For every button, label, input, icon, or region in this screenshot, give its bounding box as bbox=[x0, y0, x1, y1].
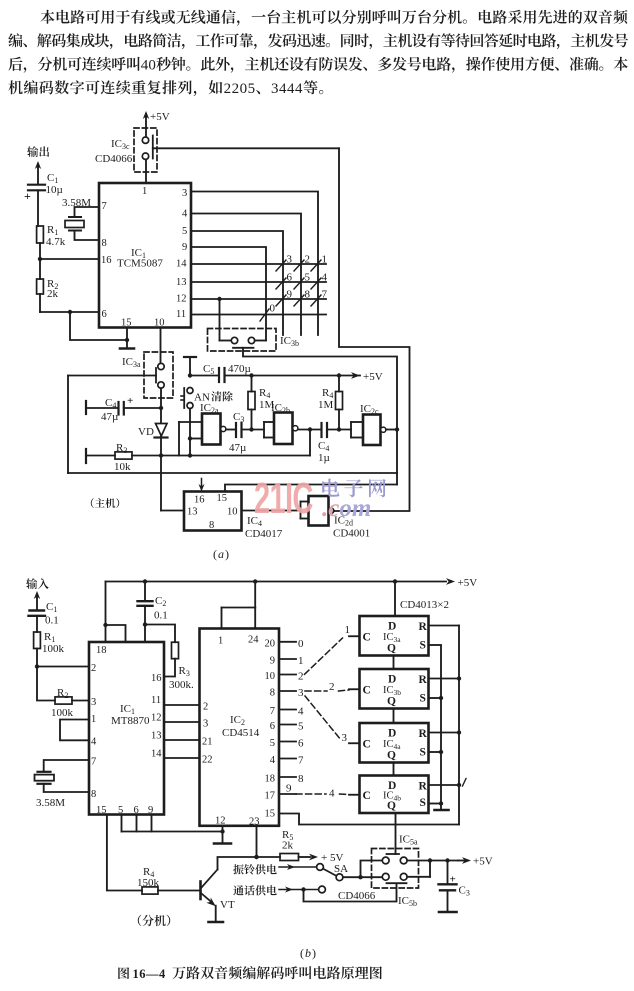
wire talk loop to IC5b bbox=[304, 884, 397, 902]
key 0 bbox=[260, 309, 269, 321]
wire C2 down to IC + R3 branch bbox=[144, 606, 146, 642]
svg-text:0: 0 bbox=[240, 81, 248, 97]
wire pin 7 to crystal bbox=[44, 760, 89, 772]
svg-text:2: 2 bbox=[232, 81, 240, 97]
svg-text:100k: 100k bbox=[42, 643, 65, 655]
svg-text:VD: VD bbox=[138, 426, 154, 438]
svg-text:300k.: 300k. bbox=[169, 679, 194, 691]
wire +5V rail of oscillator bbox=[68, 375, 156, 377]
svg-text:24: 24 bbox=[248, 635, 259, 646]
key 1 bbox=[311, 260, 321, 271]
svg-text:C: C bbox=[363, 684, 371, 696]
analog switch IC3c (CD4066) bbox=[134, 128, 157, 172]
svg-text:b: b bbox=[305, 946, 311, 960]
wire row pin14 bbox=[191, 263, 326, 265]
svg-text:18: 18 bbox=[96, 645, 107, 656]
svg-text:4: 4 bbox=[322, 272, 328, 284]
resistor R1 4.7k bbox=[37, 226, 44, 243]
svg-text:10k: 10k bbox=[114, 461, 131, 473]
analog switch block CD4066 (b) bbox=[372, 849, 419, 889]
inverter IC2b bbox=[264, 421, 274, 423]
svg-text:0: 0 bbox=[148, 58, 156, 74]
svg-text:1µ: 1µ bbox=[318, 452, 330, 464]
flip-flop IC3b (CD4013) bbox=[360, 669, 429, 709]
dashed link output3 to FF3 bbox=[305, 696, 341, 740]
wire +5V rail (b) bbox=[106, 581, 447, 583]
resistor R3 10k bbox=[85, 449, 87, 463]
power +5V (after R5) bbox=[299, 856, 311, 858]
svg-text:9: 9 bbox=[286, 783, 292, 795]
svg-text:5: 5 bbox=[270, 738, 275, 749]
svg-text:8: 8 bbox=[305, 289, 311, 301]
svg-text:5: 5 bbox=[298, 721, 304, 733]
svg-text:2k: 2k bbox=[47, 288, 59, 300]
svg-text:10: 10 bbox=[227, 507, 238, 518]
label 通话供电 bbox=[233, 885, 276, 895]
key 7 bbox=[311, 295, 321, 306]
node pin16 junction bbox=[38, 257, 42, 261]
capacitor C3 47u bbox=[226, 429, 236, 431]
pin 2 clock stub bbox=[349, 688, 360, 690]
svg-text:8: 8 bbox=[209, 520, 214, 531]
svg-text:1: 1 bbox=[298, 655, 304, 667]
svg-text:20: 20 bbox=[265, 638, 276, 649]
svg-text:R: R bbox=[419, 728, 428, 740]
svg-text:4: 4 bbox=[182, 209, 188, 220]
wire IC2b out bbox=[298, 429, 322, 431]
wire row pin13 bbox=[191, 281, 326, 283]
wire R2 to pin 6 bbox=[39, 294, 41, 312]
capacitor C4 1u bbox=[320, 423, 322, 437]
wire CD4514 pin12 bbox=[222, 826, 224, 843]
svg-text:1: 1 bbox=[142, 186, 147, 197]
svg-text:15: 15 bbox=[217, 493, 228, 504]
wire R1 to R2 bbox=[39, 243, 41, 279]
wire rail down to pin18 jog bbox=[105, 582, 107, 626]
svg-text:0.1: 0.1 bbox=[45, 615, 59, 627]
node pin15 riser bbox=[125, 338, 129, 342]
svg-text:100k: 100k bbox=[51, 707, 74, 719]
wire pins 5,6,9 to ground bus bbox=[121, 815, 123, 832]
wire pin14 to pin22 bbox=[164, 757, 200, 759]
wire crystal to pin 8 bbox=[44, 784, 89, 792]
key 8 bbox=[294, 295, 304, 306]
wire C3 to ground bbox=[447, 890, 449, 911]
svg-text:8: 8 bbox=[102, 238, 107, 249]
dashed link output3 to FF2 bbox=[305, 690, 327, 692]
svg-text:CD4066: CD4066 bbox=[338, 890, 376, 902]
svg-text:4.7k: 4.7k bbox=[46, 236, 66, 248]
wire pin10 to IC3a bbox=[160, 328, 162, 364]
enclosure (main unit) left/bottom bbox=[67, 376, 69, 474]
svg-text:1: 1 bbox=[345, 624, 351, 636]
dashed link output2 to FF1 bbox=[305, 638, 343, 674]
svg-text:Q: Q bbox=[387, 643, 396, 655]
wire pin12 to pin3 bbox=[164, 721, 200, 723]
svg-text:): ) bbox=[225, 547, 229, 561]
pin 1 clock stub bbox=[349, 635, 360, 637]
svg-text:SA: SA bbox=[334, 863, 348, 875]
svg-text:6: 6 bbox=[287, 272, 293, 284]
svg-text:13: 13 bbox=[187, 507, 198, 518]
wire R3 to pin 16 bbox=[164, 659, 175, 677]
wire pins1/4 bracket bbox=[60, 720, 89, 741]
svg-text:10: 10 bbox=[265, 671, 276, 682]
svg-text:2: 2 bbox=[329, 681, 335, 693]
pin 3 clock stub bbox=[349, 742, 360, 744]
wire pin 15 bbox=[225, 485, 397, 492]
wire Q to next D bbox=[393, 656, 395, 670]
svg-text:14: 14 bbox=[151, 749, 162, 760]
svg-text:21IC: 21IC bbox=[254, 473, 313, 523]
svg-text:10µ: 10µ bbox=[46, 184, 63, 196]
wire pin3 column 1 bbox=[191, 192, 318, 336]
svg-text:2: 2 bbox=[91, 663, 96, 674]
svg-text:VT: VT bbox=[220, 899, 235, 911]
key 4 bbox=[311, 278, 321, 289]
svg-text:D: D bbox=[388, 674, 396, 686]
flip-flop IC4a (CD4013) bbox=[360, 723, 429, 763]
node row12 to IC3b bbox=[217, 297, 221, 301]
tick on R line bbox=[463, 779, 467, 787]
capacitor C1 0.1 bbox=[30, 609, 45, 611]
label 振铃供电 bbox=[233, 864, 276, 874]
wire D of FF1 from rail bbox=[394, 582, 396, 617]
wire pin 8 bbox=[75, 231, 100, 241]
svg-text:S: S bbox=[420, 797, 426, 809]
svg-text:13: 13 bbox=[176, 277, 187, 288]
svg-text:8: 8 bbox=[270, 688, 275, 699]
svg-text:0: 0 bbox=[298, 638, 304, 650]
wire R pin bbox=[429, 732, 460, 734]
terminal bar (above AN) bbox=[184, 356, 196, 358]
svg-text:4: 4 bbox=[329, 788, 335, 800]
svg-text:3: 3 bbox=[182, 188, 187, 199]
wire emitter to ground bbox=[215, 906, 217, 922]
resistor R3 300k bbox=[172, 642, 179, 659]
svg-text:1M: 1M bbox=[318, 399, 334, 411]
svg-text:12: 12 bbox=[176, 294, 187, 305]
wire IC2c out to node bbox=[386, 429, 397, 431]
wire IC3a down chain bbox=[160, 388, 162, 510]
decoder IC1 MT8870 bbox=[89, 642, 164, 815]
ground (C3) bbox=[439, 911, 457, 914]
svg-text:3: 3 bbox=[287, 254, 293, 266]
ground (VT emitter) bbox=[209, 921, 224, 924]
wire pin15 (b) to R line bbox=[279, 814, 459, 825]
diode VD bbox=[156, 424, 168, 437]
svg-text:11: 11 bbox=[151, 695, 161, 706]
switch IC5a bbox=[387, 853, 400, 855]
wire IC3c to pin 1 bbox=[145, 160, 147, 184]
svg-text:5: 5 bbox=[182, 226, 187, 237]
wire pin4 column 2 bbox=[191, 214, 301, 336]
wire riser R3 node to IC2a input bbox=[178, 422, 180, 456]
svg-text:16: 16 bbox=[151, 673, 162, 684]
svg-text:+5V: +5V bbox=[150, 111, 170, 123]
svg-text:R: R bbox=[419, 674, 428, 686]
wire pin13 to pin21 bbox=[164, 739, 200, 741]
svg-text:TCM5087: TCM5087 bbox=[117, 258, 163, 270]
ground (below pin15) bbox=[120, 347, 134, 350]
capacitor C4 47u bbox=[85, 401, 87, 414]
svg-text:15: 15 bbox=[265, 809, 276, 820]
svg-text:7: 7 bbox=[102, 201, 107, 212]
svg-text:1: 1 bbox=[218, 636, 223, 647]
svg-text:2k: 2k bbox=[282, 840, 294, 852]
wire pin 15 down bbox=[126, 328, 128, 348]
svg-text:16—4: 16—4 bbox=[133, 967, 167, 981]
svg-text:17: 17 bbox=[265, 791, 276, 802]
push button AN (clear) bbox=[187, 388, 193, 394]
resistor R4 1M (first) bbox=[251, 376, 253, 392]
ground (S line) bbox=[435, 809, 449, 812]
svg-text:3: 3 bbox=[342, 732, 348, 744]
resistor R5 2k bbox=[280, 854, 299, 861]
wire input to C1b bbox=[36, 595, 38, 610]
svg-text:+: + bbox=[24, 189, 31, 203]
power +5V (top of a) bbox=[143, 111, 149, 119]
wire pin 16 bbox=[40, 258, 99, 260]
svg-text:C: C bbox=[363, 738, 371, 750]
dashed link output9 to FF4 bbox=[296, 793, 326, 795]
svg-text:16: 16 bbox=[101, 255, 112, 266]
wire AN to IC2a input bbox=[189, 409, 191, 439]
wire pin5 column 3 bbox=[191, 231, 283, 335]
wire IC3b output to node bbox=[243, 348, 397, 485]
svg-text:CD4013×2: CD4013×2 bbox=[400, 599, 449, 611]
svg-text:9: 9 bbox=[287, 289, 293, 301]
svg-text:(: ( bbox=[213, 547, 217, 561]
svg-text:R: R bbox=[419, 781, 428, 793]
inverter IC2c bbox=[351, 421, 363, 423]
wire R common bbox=[458, 626, 460, 825]
watermark 电子网 bbox=[322, 479, 386, 498]
key 9 bbox=[276, 295, 286, 306]
resistor R4 150k bbox=[142, 887, 158, 894]
power +5V (output) bbox=[462, 857, 471, 864]
analog switch IC3b bbox=[208, 329, 277, 352]
flip-flop IC3a (CD4013) bbox=[360, 616, 429, 656]
power +5V (b top) bbox=[446, 578, 455, 585]
wire IC2d out bbox=[333, 510, 335, 512]
capacitor C5 470u bbox=[218, 368, 220, 382]
svg-text:12: 12 bbox=[151, 713, 162, 724]
svg-text:+5V: +5V bbox=[458, 577, 478, 589]
svg-text:7: 7 bbox=[91, 757, 96, 768]
wire pin 10 to IC2d bbox=[242, 510, 301, 512]
svg-text:3.58M: 3.58M bbox=[62, 197, 91, 209]
wire pin9 column 0 bbox=[191, 247, 266, 341]
resistor R1 100k bbox=[34, 632, 41, 649]
svg-text:8: 8 bbox=[91, 789, 96, 800]
svg-text:CD4066: CD4066 bbox=[95, 153, 133, 165]
figure caption bbox=[118, 967, 129, 979]
resistor R2 2k bbox=[37, 279, 44, 294]
clock arrow into pin 16 bbox=[199, 484, 205, 492]
crystal 3.58M (b) bbox=[38, 771, 51, 773]
svg-text:+: + bbox=[127, 395, 133, 407]
svg-text:Q: Q bbox=[387, 696, 396, 708]
svg-text:0: 0 bbox=[270, 303, 276, 315]
svg-text:47µ: 47µ bbox=[229, 442, 246, 454]
svg-text:4: 4 bbox=[287, 81, 295, 97]
svg-text:15: 15 bbox=[121, 318, 132, 329]
analog switch IC3a bbox=[144, 352, 173, 398]
svg-text:9: 9 bbox=[270, 656, 275, 667]
svg-text:1: 1 bbox=[322, 254, 328, 266]
svg-text:R: R bbox=[419, 621, 428, 633]
svg-text:CD4017: CD4017 bbox=[245, 528, 283, 540]
wire FF4 Q down to IC5a bbox=[395, 813, 397, 854]
svg-text:6: 6 bbox=[102, 309, 107, 320]
wire S pin bbox=[429, 803, 443, 805]
svg-text:2: 2 bbox=[203, 702, 208, 713]
watermark 21IC bbox=[254, 473, 313, 523]
svg-text:D: D bbox=[388, 621, 396, 633]
svg-text:13: 13 bbox=[151, 731, 162, 742]
resistor R2 100k bbox=[55, 697, 72, 704]
wire IC3c output to right vertical bbox=[153, 147, 339, 149]
wire C1 to R1 bbox=[37, 190, 39, 226]
wire C1 to R1 bbox=[36, 616, 38, 632]
capacitor C3 (b) bbox=[447, 861, 449, 885]
wire feedback riser to IC2b output bbox=[309, 430, 311, 456]
svg-text:14: 14 bbox=[176, 259, 187, 270]
wire long route to IC2d output (right side) bbox=[334, 148, 410, 511]
wire R3 to feedback node bbox=[132, 455, 310, 457]
svg-text:3.58M: 3.58M bbox=[36, 797, 65, 809]
svg-text:Q: Q bbox=[387, 750, 396, 762]
node pin6 branch bbox=[68, 310, 72, 314]
svg-text:4: 4 bbox=[91, 737, 97, 748]
svg-text:3: 3 bbox=[91, 697, 96, 708]
svg-text:16: 16 bbox=[194, 495, 205, 506]
wire R pin bbox=[429, 784, 460, 786]
wire collector rail to R5 bbox=[254, 855, 258, 859]
svg-text:1: 1 bbox=[91, 714, 96, 725]
nor gate IC2d CD4001 bbox=[301, 501, 309, 503]
svg-text:S: S bbox=[420, 640, 426, 652]
wire S pin bbox=[429, 751, 442, 753]
svg-text:CD4001: CD4001 bbox=[333, 528, 370, 540]
wire to SA ring contact bbox=[279, 866, 317, 868]
svg-text:a: a bbox=[218, 547, 224, 561]
wire MT8870 pin11 to pin2 bbox=[164, 704, 200, 706]
wire Q to next D bbox=[393, 763, 395, 776]
svg-text:2: 2 bbox=[224, 81, 232, 97]
pin 4 clock stub bbox=[349, 794, 360, 796]
wire chain into pin 13 bbox=[161, 510, 184, 512]
wire pin 2 bbox=[37, 666, 89, 668]
wire R pin bbox=[429, 625, 460, 627]
svg-text:22: 22 bbox=[202, 755, 213, 766]
svg-text:CD4514: CD4514 bbox=[222, 727, 260, 739]
svg-text:+5V: +5V bbox=[363, 371, 383, 383]
paragraph text bbox=[40, 10, 627, 26]
svg-text:9: 9 bbox=[182, 242, 187, 253]
wire R2 to pin 3 bbox=[72, 700, 89, 702]
wire pin15 down to R4 bbox=[107, 815, 142, 891]
wire pin 7 bbox=[75, 207, 100, 217]
svg-text:5: 5 bbox=[305, 272, 311, 284]
wire +5V to IC3c bbox=[145, 115, 147, 137]
svg-text:5: 5 bbox=[248, 81, 256, 97]
svg-text:D: D bbox=[388, 728, 396, 740]
wire S common bbox=[440, 646, 442, 804]
key 3 bbox=[276, 260, 286, 271]
svg-text:2: 2 bbox=[298, 671, 304, 683]
wire 1/24 supply jog bbox=[254, 582, 256, 608]
svg-text:+5V: +5V bbox=[473, 856, 493, 868]
wire R pin bbox=[429, 678, 460, 680]
svg-text:6: 6 bbox=[298, 738, 304, 750]
wire pins 18/17 jog bbox=[105, 625, 107, 642]
svg-text:23: 23 bbox=[249, 817, 260, 828]
wire IC2a input stubs bbox=[179, 421, 202, 423]
transistor VT bbox=[199, 882, 202, 900]
counter IC4 CD4017 bbox=[184, 492, 242, 531]
wire SA pole to IC5a/IC5b bbox=[343, 876, 382, 878]
wire feedback to lower input bbox=[189, 439, 191, 456]
inverter IC2a bbox=[202, 414, 221, 445]
terminal 输入 (input) bbox=[26, 578, 49, 589]
wire row12 down to IC3b bbox=[219, 299, 221, 341]
svg-text:4: 4 bbox=[298, 706, 304, 718]
svg-text:MT8870: MT8870 bbox=[111, 715, 150, 727]
svg-text:7: 7 bbox=[298, 755, 304, 767]
svg-text:C: C bbox=[363, 631, 371, 643]
wire IC5b out riser bbox=[407, 876, 430, 878]
svg-text:2: 2 bbox=[305, 254, 311, 266]
wire row pin12 bbox=[191, 298, 326, 300]
wire S to ground bbox=[440, 804, 442, 810]
key 2 bbox=[294, 260, 304, 271]
svg-text:3: 3 bbox=[203, 719, 208, 730]
wire Q to next D bbox=[393, 709, 395, 724]
svg-text:Q: Q bbox=[387, 800, 396, 812]
svg-text:C: C bbox=[363, 790, 371, 802]
svg-text:6: 6 bbox=[270, 721, 275, 732]
svg-text:(: ( bbox=[300, 946, 304, 960]
svg-text:12: 12 bbox=[215, 816, 226, 827]
node C5/AN bbox=[188, 373, 192, 377]
capacitor C1 10u bbox=[28, 184, 45, 186]
svg-text:8: 8 bbox=[298, 773, 304, 785]
svg-text:10: 10 bbox=[154, 318, 165, 329]
wire output to C1 bbox=[37, 165, 39, 184]
flip-flop IC4b (CD4013) bbox=[360, 776, 429, 814]
svg-text:3: 3 bbox=[298, 687, 304, 699]
wire branch down to y340 bbox=[70, 312, 127, 340]
wire S pin bbox=[429, 697, 442, 699]
svg-text:18: 18 bbox=[265, 774, 276, 785]
svg-text:47µ: 47µ bbox=[101, 411, 118, 423]
decoder IC2 CD4514 bbox=[200, 629, 280, 826]
svg-text:7: 7 bbox=[270, 706, 275, 717]
op-amp IC1 TCM5087 bbox=[99, 183, 191, 328]
switch IC5b bbox=[387, 882, 407, 884]
label (分机) bbox=[138, 915, 170, 926]
wire node down to R2 bbox=[37, 667, 55, 701]
svg-text:15: 15 bbox=[96, 805, 107, 816]
svg-text:4: 4 bbox=[295, 81, 303, 97]
wire R1 to node bbox=[36, 649, 38, 667]
svg-text:11: 11 bbox=[176, 309, 186, 320]
svg-text:0.1: 0.1 bbox=[154, 610, 168, 622]
terminal 输出 (output) bbox=[27, 146, 49, 157]
wire IC5a out rail bbox=[407, 860, 458, 862]
